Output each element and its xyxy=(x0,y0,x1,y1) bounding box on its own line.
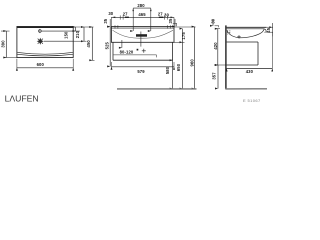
svg-text:35: 35 xyxy=(103,18,108,23)
svg-text:30: 30 xyxy=(164,12,169,17)
svg-text:280: 280 xyxy=(137,3,145,8)
svg-text:465: 465 xyxy=(138,12,146,17)
svg-text:30: 30 xyxy=(108,11,113,16)
svg-text:150: 150 xyxy=(64,31,69,39)
svg-text:LΛUFEN: LΛUFEN xyxy=(5,93,39,103)
svg-text:210: 210 xyxy=(75,30,80,38)
svg-text:420: 420 xyxy=(213,42,218,50)
svg-text:960: 960 xyxy=(189,59,194,67)
svg-text:45: 45 xyxy=(266,27,271,32)
svg-text:175: 175 xyxy=(181,32,186,40)
svg-text:80-120: 80-120 xyxy=(120,50,134,55)
svg-text:525: 525 xyxy=(104,41,109,49)
svg-text:390: 390 xyxy=(0,40,5,48)
svg-text:600: 600 xyxy=(37,62,45,67)
svg-text:27: 27 xyxy=(123,11,128,16)
svg-text:580: 580 xyxy=(165,66,170,74)
svg-text:E 51067: E 51067 xyxy=(243,98,261,103)
svg-text:357: 357 xyxy=(212,72,217,80)
svg-text:30: 30 xyxy=(211,18,216,23)
svg-text:450: 450 xyxy=(86,40,91,48)
svg-text:35: 35 xyxy=(168,18,173,23)
svg-text:430: 430 xyxy=(246,69,254,74)
svg-text:27: 27 xyxy=(158,12,163,17)
svg-text:650: 650 xyxy=(176,63,181,71)
svg-text:579: 579 xyxy=(137,69,145,74)
